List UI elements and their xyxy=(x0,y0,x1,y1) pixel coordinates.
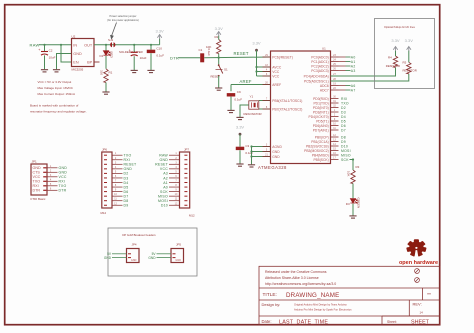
svg-text:JP6: JP6 xyxy=(102,148,107,152)
svg-text:10uF: 10uF xyxy=(49,56,56,60)
svg-text:3.3V: 3.3V xyxy=(252,41,261,46)
svg-text:resonator frequency and regula: resonator frequency and regulator voltag… xyxy=(30,110,87,114)
svg-text:AVCC: AVCC xyxy=(272,65,282,69)
svg-text:M12: M12 xyxy=(101,211,107,215)
pin JP6-1 xyxy=(104,154,107,156)
junction reset xyxy=(218,57,220,59)
ground power LED xyxy=(102,92,109,94)
svg-text:30: 30 xyxy=(333,95,336,98)
pin 11 PD7(AIN1) xyxy=(331,129,339,131)
svg-text:D1: D1 xyxy=(100,54,104,58)
ground resonator xyxy=(236,117,243,119)
capacitor C3 0.1uF xyxy=(239,134,241,146)
svg-text:DTR: DTR xyxy=(59,189,67,193)
svg-text:1: 1 xyxy=(334,109,336,112)
svg-text:D10: D10 xyxy=(341,144,348,148)
wire VCC rail xyxy=(256,50,258,76)
svg-text:open hardware: open hardware xyxy=(399,260,438,266)
svg-text:0.1uF: 0.1uF xyxy=(234,97,242,101)
svg-text:GND: GND xyxy=(272,155,280,159)
svg-text:13: 13 xyxy=(333,138,336,141)
svg-text:SCK: SCK xyxy=(160,190,168,194)
capacitor C1 0.1uF xyxy=(200,53,204,62)
connector JP6 M12 left xyxy=(102,152,112,208)
svg-text:EN: EN xyxy=(73,61,79,65)
svg-text:TXO: TXO xyxy=(124,154,132,158)
svg-text:PB6(XTAL1/TOSC1): PB6(XTAL1/TOSC1) xyxy=(272,99,302,103)
connector JP5 xyxy=(171,249,184,263)
svg-text:19: 19 xyxy=(333,82,336,85)
junction at C2 xyxy=(43,44,45,46)
svg-text:2: 2 xyxy=(50,169,52,172)
svg-text:D2: D2 xyxy=(341,106,346,110)
svg-text:(for low power applications): (for low power applications) xyxy=(107,18,139,22)
pin 5 GND xyxy=(263,151,271,153)
pin 3 AGND xyxy=(263,146,271,148)
svg-text:3: 3 xyxy=(175,161,177,164)
svg-text:PC5(ADC5/SCL): PC5(ADC5/SCL) xyxy=(304,79,329,83)
svg-text:GND: GND xyxy=(59,166,68,170)
svg-text:S1: S1 xyxy=(224,67,228,71)
svg-text:GND: GND xyxy=(131,259,137,262)
pin 22 ADC7 xyxy=(331,89,339,91)
pin JP6-11 xyxy=(104,200,107,202)
svg-text:330: 330 xyxy=(99,70,103,75)
svg-text:JP4: JP4 xyxy=(132,243,137,247)
svg-text:PC1(ADC1): PC1(ADC1) xyxy=(311,60,328,64)
svg-text:A1: A1 xyxy=(351,60,356,64)
svg-text:R2: R2 xyxy=(215,35,219,39)
pin 16 PB4(MISO) xyxy=(331,154,339,156)
svg-text:RESET: RESET xyxy=(234,51,249,56)
svg-text:A3: A3 xyxy=(351,69,356,73)
svg-text:1: 1 xyxy=(50,165,52,168)
LED D3 GREEN xyxy=(350,199,357,204)
wire C1 to RESET junction xyxy=(204,56,270,59)
svg-text:RED: RED xyxy=(110,52,114,59)
svg-text:TXO: TXO xyxy=(341,101,349,105)
svg-text:PB5(SCK): PB5(SCK) xyxy=(313,158,328,162)
svg-text:10K: 10K xyxy=(206,45,211,49)
pin JP7-11 xyxy=(184,200,187,202)
resistor R1 330 xyxy=(104,69,108,83)
svg-text:ADC6: ADC6 xyxy=(320,84,329,88)
svg-text:5: 5 xyxy=(115,170,117,173)
supply 3.3V rail xyxy=(159,39,161,45)
svg-text:PB1(OC1A): PB1(OC1A) xyxy=(311,140,328,144)
svg-text:26: 26 xyxy=(333,67,336,70)
svg-text:GND: GND xyxy=(175,259,181,262)
svg-text:GND: GND xyxy=(59,171,68,175)
svg-text:4: 4 xyxy=(115,166,117,169)
svg-text:1: 1 xyxy=(115,152,117,155)
svg-text:GND: GND xyxy=(272,150,280,154)
net label A3 xyxy=(339,70,346,72)
svg-text:Design by:: Design by: xyxy=(262,302,281,307)
pin JP7-12 xyxy=(184,204,187,206)
wire regulator OUT rail xyxy=(94,44,160,46)
pin 13 PB1(OC1A) xyxy=(331,141,339,143)
svg-text:C9: C9 xyxy=(237,90,241,94)
svg-text:DP GxM Breakout headers: DP GxM Breakout headers xyxy=(122,233,156,237)
svg-text:D3: D3 xyxy=(341,110,346,114)
pin 24 PC1(ADC1) xyxy=(331,61,339,63)
wire EN to input rail xyxy=(61,45,72,62)
svg-text:http://creativecommons.org/lic: http://creativecommons.org/licenses/by-s… xyxy=(265,282,336,286)
svg-text:RXI: RXI xyxy=(124,158,131,162)
svg-text:RXI: RXI xyxy=(341,97,348,101)
pin 31 PD1(TXD) xyxy=(331,102,339,104)
junction GND xyxy=(250,145,252,147)
svg-text:7: 7 xyxy=(175,180,177,183)
svg-text:FTDI Basic: FTDI Basic xyxy=(31,197,46,201)
svg-text:11: 11 xyxy=(333,127,336,130)
svg-text:RESET: RESET xyxy=(124,163,138,167)
svg-text:PC2(ADC2): PC2(ADC2) xyxy=(311,64,328,68)
svg-text:PD6(AIN0): PD6(AIN0) xyxy=(313,124,329,128)
svg-text:5: 5 xyxy=(175,170,177,173)
svg-text:A0: A0 xyxy=(163,185,168,189)
svg-text:11: 11 xyxy=(175,198,178,201)
svg-text:PB2(SS/OC1B): PB2(SS/OC1B) xyxy=(306,144,329,148)
pin 27 PC4(ADC4/SDA) xyxy=(331,75,339,77)
svg-text:A0: A0 xyxy=(351,55,356,59)
svg-text:D2: D2 xyxy=(124,172,129,176)
svg-text:PD5(T1): PD5(T1) xyxy=(316,119,328,123)
svg-text:C10: C10 xyxy=(156,47,162,51)
svg-text:23: 23 xyxy=(333,54,336,57)
svg-text:14: 14 xyxy=(420,311,424,315)
svg-text:D9: D9 xyxy=(341,140,346,144)
svg-text:C3: C3 xyxy=(245,144,249,148)
svg-text:MIC5205: MIC5205 xyxy=(72,68,84,72)
pin JP7-1 xyxy=(184,154,187,156)
svg-text:20: 20 xyxy=(265,81,268,84)
pin 28 PC5(ADC5/SCL) xyxy=(331,80,339,82)
svg-text:A3: A3 xyxy=(163,172,168,176)
wire SDA xyxy=(331,68,396,77)
pin JP7-8 xyxy=(184,186,187,188)
svg-text:D3: D3 xyxy=(346,202,350,206)
svg-text:A2: A2 xyxy=(163,176,168,180)
svg-text:SCK: SCK xyxy=(341,158,349,162)
svg-text:RESONATOR: RESONATOR xyxy=(244,112,262,116)
svg-text:1: 1 xyxy=(175,152,177,155)
ground C9 xyxy=(227,110,234,112)
pin JP7-9 xyxy=(184,191,187,193)
box DP GxM breakout headers xyxy=(108,228,197,276)
junction C10 branch xyxy=(150,44,152,46)
svg-text:D8: D8 xyxy=(341,135,346,139)
svg-text:D9: D9 xyxy=(124,204,129,208)
pin 20 AREF xyxy=(263,84,271,86)
svg-text:SHEET: SHEET xyxy=(411,320,430,326)
junction SCK xyxy=(352,158,354,160)
svg-text:TXO: TXO xyxy=(33,180,41,184)
svg-text:Optional Pullups for I2C lines: Optional Pullups for I2C lines xyxy=(384,26,416,29)
svg-text:10K: 10K xyxy=(347,171,351,176)
svg-text:MISO: MISO xyxy=(158,194,168,198)
svg-text:GREEN: GREEN xyxy=(357,198,361,209)
ground IC xyxy=(248,165,255,167)
svg-text:16: 16 xyxy=(333,152,336,155)
svg-text:VCC: VCC xyxy=(272,70,280,74)
resistor R5 xyxy=(407,62,411,73)
svg-text:17: 17 xyxy=(333,156,336,159)
junction LED branch xyxy=(105,44,107,46)
IC U1 ATMEGA328 xyxy=(271,51,331,164)
pin 6 VCC xyxy=(263,75,271,77)
svg-text:15: 15 xyxy=(333,147,336,150)
svg-text:VCC: VCC xyxy=(160,167,168,171)
svg-text:REV:: REV: xyxy=(413,301,422,306)
pin JP6-7 xyxy=(104,182,107,184)
pin 15 PB3(MOSI/OC2) xyxy=(331,150,339,152)
svg-text:18: 18 xyxy=(265,64,268,67)
svg-text:RAW: RAW xyxy=(159,154,168,158)
supply 3.3V R4 xyxy=(395,51,397,57)
pin JP6-6 xyxy=(104,177,107,179)
svg-text:A1: A1 xyxy=(163,181,168,185)
svg-text:+: + xyxy=(38,48,40,52)
svg-text:9: 9 xyxy=(334,118,336,121)
svg-text:9: 9 xyxy=(175,189,177,192)
svg-text:GND: GND xyxy=(148,256,156,260)
svg-text:Attribution Share-Alike 3.0 Li: Attribution Share-Alike 3.0 License xyxy=(265,276,319,280)
svg-text:VCC: VCC xyxy=(33,175,41,179)
svg-text:R1: R1 xyxy=(109,71,113,75)
svg-text:PB3(MOSI/OC2): PB3(MOSI/OC2) xyxy=(304,149,329,153)
pin JP6-2 xyxy=(104,159,107,161)
pin 14 PB2(SS/OC1B) xyxy=(331,145,339,147)
pin JP7-2 xyxy=(184,159,187,161)
pin JP6-8 xyxy=(104,186,107,188)
svg-text:R3: R3 xyxy=(356,165,360,169)
svg-text:PB4(MISO): PB4(MISO) xyxy=(312,153,329,157)
svg-text:IN: IN xyxy=(73,43,77,47)
svg-text:22: 22 xyxy=(333,87,336,90)
svg-text:MISO: MISO xyxy=(341,153,351,157)
pin JP5-2 GND xyxy=(173,257,176,259)
wire SCL xyxy=(331,74,409,81)
svg-text:RXI: RXI xyxy=(59,180,66,184)
pin JP6-3 xyxy=(104,163,107,165)
svg-text:Arduino Pro Mini Design by Spa: Arduino Pro Mini Design by Spark Fun Ele… xyxy=(294,308,352,312)
svg-text:GND: GND xyxy=(73,52,82,56)
capacitor C10 0.1uF xyxy=(150,45,152,50)
svg-text:JP1: JP1 xyxy=(32,160,38,164)
svg-text:3: 3 xyxy=(50,174,52,177)
wire JP4 GND xyxy=(112,257,127,259)
svg-text:8: 8 xyxy=(266,106,268,109)
pin JP7-3 xyxy=(184,163,187,165)
svg-text:VCC = 5V or 3.3V Output: VCC = 5V or 3.3V Output xyxy=(38,80,72,84)
junction EN branch xyxy=(60,44,62,46)
svg-text:2: 2 xyxy=(175,157,177,160)
ground C2 xyxy=(41,70,48,72)
connector JP1 FTDI xyxy=(31,164,47,195)
pin JP7-4 xyxy=(184,168,187,170)
svg-text:6: 6 xyxy=(115,175,117,178)
box optional pullups xyxy=(375,19,435,89)
pin 2 PD4(XCK/T0) xyxy=(331,116,339,118)
svg-text:PD3(INT1): PD3(INT1) xyxy=(313,110,329,114)
svg-text:3.3V: 3.3V xyxy=(155,29,164,34)
svg-text:3: 3 xyxy=(266,143,268,146)
svg-text:D5: D5 xyxy=(124,185,129,189)
svg-text:9: 9 xyxy=(115,189,117,192)
pin JP7-10 xyxy=(184,195,187,197)
pin JP4-2 GND xyxy=(128,257,131,259)
ground C3 xyxy=(236,164,243,166)
net label A7 xyxy=(339,89,346,91)
wire JP4 5V xyxy=(112,253,127,255)
pin 9 PD5(T1) xyxy=(331,120,339,122)
pin 29 PC6(/RESET) xyxy=(263,56,271,58)
net label A2 xyxy=(339,65,346,67)
svg-text:8: 8 xyxy=(175,184,177,187)
svg-text:JP7: JP7 xyxy=(184,148,189,152)
supply 3.3V R5 xyxy=(408,51,410,63)
svg-text:RESISTOR: RESISTOR xyxy=(403,68,417,72)
ground regulator xyxy=(53,70,60,72)
connector JP4 xyxy=(127,249,140,263)
svg-text:25: 25 xyxy=(333,63,336,66)
svg-text:PD2(INT0): PD2(INT0) xyxy=(313,106,329,110)
pin JP4-1 5V xyxy=(128,253,131,255)
wire XTAL2 xyxy=(259,108,271,110)
svg-text:12: 12 xyxy=(175,202,178,205)
svg-text:PC0(ADC0): PC0(ADC0) xyxy=(311,55,328,59)
svg-text:D6: D6 xyxy=(124,190,129,194)
svg-text:28: 28 xyxy=(333,78,336,81)
svg-text:27: 27 xyxy=(333,73,336,76)
svg-text:PB7(XTAL2/TOSC2): PB7(XTAL2/TOSC2) xyxy=(272,107,302,111)
svg-text:D5: D5 xyxy=(341,119,346,123)
svg-text:14: 14 xyxy=(333,143,336,146)
switch S1 RESET xyxy=(218,58,220,65)
svg-text:D7: D7 xyxy=(124,194,129,198)
svg-text:21: 21 xyxy=(265,153,268,156)
svg-text:4: 4 xyxy=(50,178,52,181)
capacitor C6 10uF xyxy=(133,45,135,53)
svg-text:2: 2 xyxy=(115,157,117,160)
svg-text:AREF: AREF xyxy=(272,83,281,87)
svg-text:DTR: DTR xyxy=(33,189,41,193)
svg-text:D6: D6 xyxy=(341,124,346,128)
svg-text:Released under the Creative Co: Released under the Creative Commons xyxy=(265,270,327,274)
svg-text:10uF: 10uF xyxy=(140,56,147,60)
svg-text:31: 31 xyxy=(333,100,336,103)
wire regulator GND to ground xyxy=(57,54,72,70)
svg-text:OUT: OUT xyxy=(84,43,93,47)
connector JP7 M12 right xyxy=(180,152,190,208)
svg-text:12: 12 xyxy=(333,134,336,137)
svg-text:Max Current Output: 150mA: Max Current Output: 150mA xyxy=(38,92,76,96)
pin 21 GND xyxy=(263,156,271,158)
ground C6 xyxy=(131,70,138,72)
pin 1 PD3(INT1) xyxy=(331,111,339,113)
svg-text:Date:: Date: xyxy=(262,319,272,324)
svg-text:5: 5 xyxy=(50,183,52,186)
LED D1 RED xyxy=(103,51,110,56)
svg-text:RESISTOR: RESISTOR xyxy=(386,64,400,68)
net label A6 xyxy=(339,85,346,87)
pin JP6-5 xyxy=(104,172,107,174)
svg-text:3.3V: 3.3V xyxy=(236,125,245,130)
svg-text:MOSI: MOSI xyxy=(341,149,351,153)
pin JP7-7 xyxy=(184,182,187,184)
svg-text:D4: D4 xyxy=(341,115,346,119)
pin JP6-9 xyxy=(104,191,107,193)
svg-text:DTR: DTR xyxy=(170,55,179,60)
svg-text:D8: D8 xyxy=(124,199,129,203)
svg-text:M12: M12 xyxy=(189,213,195,217)
pin 18 AVCC xyxy=(263,66,271,68)
svg-text:3.3V: 3.3V xyxy=(215,26,224,31)
svg-text:ATMEGA328: ATMEGA328 xyxy=(258,165,287,170)
svg-text:10: 10 xyxy=(175,193,178,196)
svg-text:24: 24 xyxy=(333,58,336,61)
svg-text:D7: D7 xyxy=(341,128,346,132)
svg-text:GND: GND xyxy=(104,256,112,260)
capacitor C2 10uF xyxy=(44,45,46,52)
svg-text:U2: U2 xyxy=(72,34,76,38)
pin 17 PB5(SCK) xyxy=(331,159,339,161)
svg-text:C1: C1 xyxy=(199,48,203,52)
arrow to SJ1 xyxy=(111,23,117,39)
svg-text:BP: BP xyxy=(87,61,93,65)
svg-text:8: 8 xyxy=(115,184,117,187)
pin 26 PC3(ADC3) xyxy=(331,70,339,72)
svg-text:PD4(XCK/T0): PD4(XCK/T0) xyxy=(309,115,329,119)
pin 12 PB0(ICP) xyxy=(331,136,339,138)
svg-text:LAST_DATE_TIME: LAST_DATE_TIME xyxy=(279,320,328,326)
svg-text:C2: C2 xyxy=(49,48,53,52)
ground C10 xyxy=(147,70,154,72)
svg-text:PD0(RXD): PD0(RXD) xyxy=(313,97,329,101)
svg-text:0.1uF: 0.1uF xyxy=(207,49,211,57)
svg-text:0.1uF: 0.1uF xyxy=(156,54,164,58)
pin JP7-6 xyxy=(184,177,187,179)
title block xyxy=(259,266,440,325)
svg-text:5: 5 xyxy=(266,148,268,151)
pin 23 PC0(ADC0) xyxy=(331,56,339,58)
svg-text:10: 10 xyxy=(333,122,336,125)
svg-text:29: 29 xyxy=(265,54,268,57)
svg-text:MOSI: MOSI xyxy=(158,199,168,203)
svg-text:ADC7: ADC7 xyxy=(320,88,329,92)
svg-text:GND: GND xyxy=(33,166,42,170)
svg-text:AGND: AGND xyxy=(272,145,282,149)
svg-text:Power selection jumper: Power selection jumper xyxy=(110,14,137,18)
svg-text:6: 6 xyxy=(175,175,177,178)
ground LED D3 xyxy=(349,216,356,218)
svg-text:RESET: RESET xyxy=(155,163,169,167)
pin JP6-4 xyxy=(104,168,107,170)
svg-text:CTS: CTS xyxy=(33,171,41,175)
pin stub BP xyxy=(94,61,100,63)
svg-text:Board is marked with combinati: Board is marked with combination of xyxy=(30,104,79,108)
supply 3.3V reset pullup xyxy=(218,36,220,40)
wire JP5 GND xyxy=(157,257,172,259)
svg-text:PD7(AIN1): PD7(AIN1) xyxy=(313,128,329,132)
ground S1 xyxy=(215,88,222,90)
wire resonator gnd xyxy=(240,105,249,117)
svg-text:D3: D3 xyxy=(124,176,129,180)
resistor R2 10K pullup xyxy=(218,54,220,58)
svg-text:11: 11 xyxy=(114,198,117,201)
